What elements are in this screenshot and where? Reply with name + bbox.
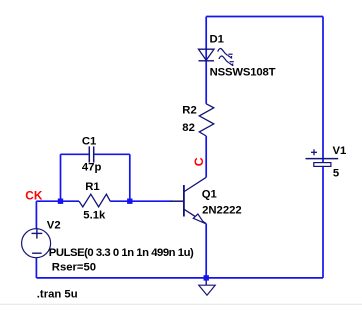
V2 value label PULSE xyxy=(49,247,194,259)
V2 reference label xyxy=(47,219,61,231)
capacitor C1 plates xyxy=(89,146,93,162)
svg-text:Rser=50: Rser=50 xyxy=(52,262,96,274)
wire right upper: top rail down to V1 battery xyxy=(322,17,324,164)
wire C1 left lead xyxy=(61,153,89,155)
svg-text:.tran 5u: .tran 5u xyxy=(37,288,78,300)
status bar separator line xyxy=(0,303,362,305)
wire LED anode lead xyxy=(205,17,207,61)
wire V2 top lead to node CK xyxy=(35,201,37,229)
Q1 reference label xyxy=(202,188,217,200)
svg-text:47p: 47p xyxy=(82,162,102,174)
voltage source V2 circle xyxy=(22,229,51,258)
svg-text:82: 82 xyxy=(182,122,195,134)
R1 value label 5.1k xyxy=(83,210,106,222)
D1 light emission squiggle arrow 1 xyxy=(218,49,233,59)
V1 reference label xyxy=(333,145,347,157)
resistor R1 zigzag xyxy=(79,194,110,207)
svg-text:PULSE(0 3.3 0 1n 1n 499n 1u): PULSE(0 3.3 0 1n 1n 499n 1u) xyxy=(49,247,194,259)
svg-text:Q1: Q1 xyxy=(202,188,217,200)
R2 reference label xyxy=(182,105,196,117)
svg-text:D1: D1 xyxy=(210,34,224,46)
V2 value label Rser xyxy=(52,262,96,274)
C1 value label 47p xyxy=(82,162,102,174)
diode D1 (LED) triangle and cathode bar xyxy=(199,49,215,61)
svg-text:CK: CK xyxy=(25,188,43,202)
junction at emitter and bottom rail (ground node) xyxy=(204,275,209,280)
junction at C1 right leg and base wire xyxy=(127,199,132,204)
spice directive .tran 5u xyxy=(37,288,78,300)
svg-text:V1: V1 xyxy=(333,145,347,157)
ground symbol triangle xyxy=(199,285,215,295)
D1 light emission squiggle arrow 2 xyxy=(219,56,234,66)
wire C1 right lead xyxy=(94,153,129,155)
V2 minus sign xyxy=(32,252,42,254)
V2 plus sign xyxy=(32,228,43,238)
Q1 emitter arrow xyxy=(193,214,204,223)
wire bottom rail xyxy=(36,277,323,279)
svg-text:R2: R2 xyxy=(182,105,196,117)
ground symbol stub xyxy=(205,280,207,285)
wire top: LED column to V1 column xyxy=(206,16,323,18)
wire C1 left leg xyxy=(60,154,62,201)
C1 reference label xyxy=(82,136,96,148)
battery V1 bottom plate rectangle xyxy=(314,163,331,167)
wire node CK to R1 xyxy=(36,200,79,202)
node label C (red, rotated) xyxy=(192,157,206,166)
Q1 value label 2N2222 xyxy=(202,205,242,217)
svg-text:C1: C1 xyxy=(82,136,96,148)
wire R1 to Q1 base xyxy=(110,200,172,202)
D1 reference label xyxy=(210,34,224,46)
svg-text:NSSWS108T: NSSWS108T xyxy=(210,66,276,78)
V1 plus sign xyxy=(311,149,317,155)
battery V1 top plate xyxy=(306,158,339,160)
Q1 collector diagonal xyxy=(184,177,206,191)
Q1 base lead xyxy=(171,200,184,202)
Q1 emitter diagonal xyxy=(184,209,206,223)
svg-text:C: C xyxy=(192,157,206,166)
wire C1 right leg xyxy=(129,154,131,201)
transistor Q1 base bar xyxy=(183,185,185,217)
node label CK (red) xyxy=(25,188,43,202)
svg-text:V2: V2 xyxy=(47,219,61,231)
svg-text:5: 5 xyxy=(333,168,339,180)
wire LED cathode to R2 xyxy=(205,61,207,104)
V1 value label 5 xyxy=(333,168,339,180)
wire R2 to Q1 collector, node C xyxy=(205,136,207,177)
D1 value label NSSWS108T xyxy=(210,66,276,78)
R1 reference label xyxy=(85,181,99,193)
wire Q1 emitter to bottom rail xyxy=(205,223,207,278)
wire right lower: V1 battery down to bottom rail xyxy=(322,166,324,278)
svg-text:R1: R1 xyxy=(85,181,99,193)
junction at C1 left leg and base wire xyxy=(58,199,63,204)
svg-text:2N2222: 2N2222 xyxy=(202,205,242,217)
wire V2 bottom lead xyxy=(35,258,37,278)
R2 value label 82 xyxy=(182,122,195,134)
svg-text:5.1k: 5.1k xyxy=(83,210,106,222)
resistor R2 zigzag xyxy=(199,104,214,136)
